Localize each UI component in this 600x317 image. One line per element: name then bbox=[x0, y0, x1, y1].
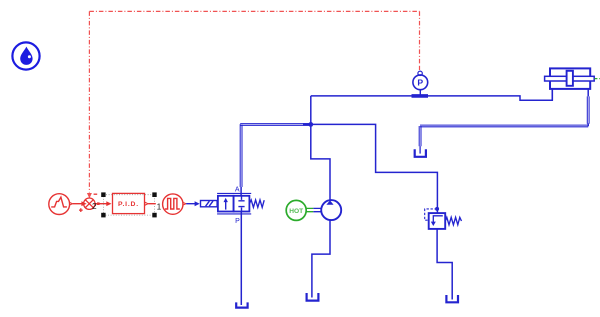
fluid drop icon bbox=[12, 42, 39, 69]
svg-text:1: 1 bbox=[157, 202, 162, 212]
relief valve bbox=[429, 213, 446, 229]
plus sign (left input) bbox=[79, 208, 83, 212]
rod return horizontal (double) bbox=[420, 125, 588, 127]
wire: pulse generator to valve solenoid (blue) bbox=[186, 203, 195, 205]
rod return drop to tank (double then single) bbox=[419, 126, 421, 146]
tank under valve P bbox=[236, 302, 247, 307]
wire: signal generator to summing junction bbox=[73, 203, 82, 205]
proportional valve body bbox=[218, 196, 250, 212]
wire: relief valve to tank bbox=[437, 229, 452, 300]
signal generator bbox=[49, 194, 70, 215]
cylinder (double rod) bbox=[545, 68, 595, 89]
wire: junction up to gauge line bbox=[310, 96, 312, 125]
svg-text:P: P bbox=[417, 78, 423, 88]
relief valve pilot dashed line bbox=[425, 209, 437, 220]
pump bbox=[321, 200, 341, 220]
signal generator output nub bbox=[70, 202, 73, 205]
proportional valve parallel lines bbox=[217, 193, 251, 214]
tank under pump bbox=[307, 293, 319, 301]
cylinder rod-side return: down from cylinder (double) bbox=[587, 89, 589, 126]
wire: junction down to pump bbox=[311, 124, 330, 200]
junction node (main) bbox=[308, 122, 313, 127]
minus sign (top input) bbox=[94, 193, 98, 195]
wire: valve A port up (double) bbox=[240, 187, 242, 196]
feedback signal line right vertical to gauge bbox=[419, 11, 421, 64]
wire: PID to pulse generator bbox=[148, 203, 156, 205]
wire: gauge line horizontal bbox=[311, 89, 553, 100]
wire: pump suction to tank bbox=[312, 220, 330, 297]
valve left cell arrow bbox=[225, 202, 227, 210]
PID controller selection box bbox=[101, 192, 157, 217]
heat source HOT bbox=[286, 200, 306, 220]
wire: junction right to relief valve bbox=[311, 124, 438, 213]
PID controller bbox=[113, 193, 145, 213]
arrowhead into summing junction bbox=[87, 193, 92, 198]
pulse output nub bbox=[183, 202, 186, 205]
tank under relief valve bbox=[446, 295, 458, 302]
relief valve spring bbox=[445, 217, 461, 225]
svg-text:HOT: HOT bbox=[289, 208, 303, 215]
pulse signal display bbox=[163, 194, 183, 214]
svg-text:P: P bbox=[235, 218, 240, 225]
svg-text:A: A bbox=[235, 186, 240, 193]
shaft HOT to pump bbox=[306, 208, 313, 211]
relief valve pilot node bbox=[435, 207, 439, 211]
svg-text:2: 2 bbox=[92, 201, 97, 211]
summing junction bbox=[84, 198, 95, 209]
wire: summing junction to PID bbox=[95, 203, 107, 205]
tank (rod side return) bbox=[415, 149, 426, 157]
wire: A line horizontal to junction (double) bbox=[240, 124, 311, 126]
feedback signal line (red dash-dot) top horizontal bbox=[89, 10, 419, 12]
cylinder left port stub bbox=[551, 89, 553, 100]
feedback signal line left vertical bbox=[88, 11, 90, 192]
wire: valve P port down to tank bbox=[240, 212, 242, 305]
pressure gauge bbox=[413, 71, 428, 95]
svg-text:P.I.D.: P.I.D. bbox=[118, 201, 139, 208]
PID output nub bbox=[145, 202, 148, 205]
valve spring bbox=[250, 200, 265, 208]
cylinder position sensor tap (green) bbox=[594, 78, 600, 80]
bold junction segment at gauge bbox=[412, 94, 429, 98]
valve right cell blocked ports bbox=[238, 196, 244, 211]
proportional valve solenoid bbox=[201, 201, 218, 207]
